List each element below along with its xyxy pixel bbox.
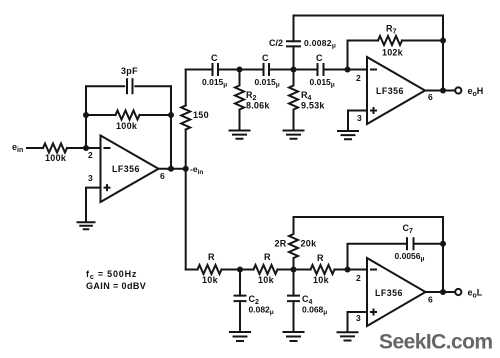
svg-text:R: R [208, 252, 215, 262]
op-amp U2 LF356 [356, 57, 433, 124]
node R4 junction [291, 67, 297, 73]
resistor 150 [181, 106, 209, 130]
svg-text:LF356: LF356 [376, 86, 404, 96]
svg-text:R: R [264, 252, 271, 262]
svg-text:C/2: C/2 [269, 38, 283, 48]
annotation GAIN = 0dBV [86, 281, 146, 291]
svg-text:150: 150 [193, 110, 209, 120]
wire 100k feedback line right [140, 114, 172, 116]
svg-text:2: 2 [356, 73, 361, 83]
resistor Rc 10k [311, 253, 335, 285]
svg-text:R: R [317, 253, 324, 263]
capacitor Cf 3pF [121, 66, 138, 93]
wire 100k feedback line left [86, 114, 116, 116]
svg-text:LF356: LF356 [112, 164, 140, 174]
svg-text:C: C [262, 53, 269, 63]
wire input node to U2 pin2 [348, 69, 368, 71]
terminal e_oL [455, 288, 483, 300]
wire node C4 to Rc [294, 269, 311, 271]
wire C to node R2 [219, 69, 240, 71]
svg-text:C: C [211, 53, 218, 63]
svg-text:2: 2 [88, 150, 93, 160]
node label -e_in [190, 164, 203, 176]
svg-text:6: 6 [160, 171, 165, 181]
svg-text:6: 6 [428, 92, 433, 102]
resistor R2 8.06k [235, 70, 270, 131]
svg-text:102k: 102k [382, 48, 404, 58]
capacitor C4 0.068u [288, 270, 327, 332]
node feedback left junction [83, 112, 89, 118]
capacitor C 0.015u (second) [255, 53, 280, 89]
node U2 inverting input [345, 67, 351, 73]
svg-text:10k: 10k [313, 275, 330, 285]
wire input to R_in [27, 147, 43, 149]
input source label e_in [12, 142, 23, 154]
svg-text:0.0082μ: 0.0082μ [304, 38, 336, 50]
node feedback right junction [168, 112, 174, 118]
wire node C2 to Rb [240, 269, 254, 271]
wire top line to output [294, 15, 444, 17]
wire C2 to node R4 [270, 69, 294, 71]
wire C7 branch vertical [348, 244, 407, 270]
svg-text:3: 3 [88, 173, 93, 183]
svg-text:3: 3 [356, 313, 361, 323]
wire output vertical lower [442, 217, 444, 292]
wire Rb to node C4 [278, 269, 294, 271]
resistor Rf 100k [116, 111, 140, 132]
op-amp U1 LF356 [88, 136, 165, 203]
wire R7 to output vertical [402, 40, 443, 42]
wire upper chain start [186, 69, 212, 71]
node R7 output junction [440, 38, 446, 44]
svg-text:8.06k: 8.06k [246, 101, 270, 111]
svg-text:GAIN = 0dBV: GAIN = 0dBV [86, 281, 146, 291]
wire node A up to feedback loop [85, 86, 87, 148]
wire U1 pin3 to ground [86, 188, 101, 222]
svg-text:100k: 100k [116, 121, 138, 131]
wire lower chain start [186, 269, 198, 271]
wire top feedback line (left half) [86, 85, 124, 87]
wire C3 to node U2 input [325, 69, 348, 71]
capacitor C 0.015u (first) [202, 53, 227, 89]
wire U1 output [159, 168, 186, 170]
ground C4 [284, 332, 304, 341]
svg-text:SeekIC.com: SeekIC.com [379, 331, 493, 354]
wire U2 pin3 to ground [348, 111, 367, 131]
wire input node to U3 pin2 [348, 269, 368, 271]
wire right feedback vertical [170, 86, 172, 168]
ground U3 [338, 332, 358, 340]
capacitor C7 0.0056u [395, 223, 425, 263]
wire U3 output [426, 291, 456, 293]
wire U3 pin3 to ground [348, 312, 368, 332]
node U3 inverting input [345, 267, 351, 273]
resistor Ra 10k [198, 252, 222, 285]
svg-text:6: 6 [428, 295, 433, 305]
wire output vertical upper [442, 16, 444, 91]
node U3 output junction [440, 289, 446, 295]
ground R2 [230, 131, 250, 139]
node U1 output / feedback tap [168, 166, 174, 172]
wire U2 output [425, 90, 455, 92]
node -e_in junction [183, 166, 189, 172]
terminal e_oH [455, 86, 483, 98]
resistor Rb 10k [254, 252, 278, 285]
op-amp U3 LF356 [356, 258, 433, 326]
wire Rc to node U3 input [335, 269, 348, 271]
wire R7 branch vertical [348, 41, 379, 70]
node U2 output junction [440, 88, 446, 94]
wire Ra to node C2 [222, 269, 241, 271]
node A (inverting input of U1) [83, 145, 89, 151]
svg-text:LF356: LF356 [375, 288, 403, 298]
svg-text:20k: 20k [301, 239, 318, 249]
svg-text:2: 2 [356, 273, 361, 283]
resistor R_in 100k [43, 144, 67, 164]
resistor R4 9.53k [289, 70, 325, 131]
node R2 junction [237, 67, 243, 73]
wire top feedback line (right half) [135, 85, 171, 87]
ground U1 [78, 222, 95, 229]
ground U2 [338, 131, 358, 139]
svg-text:3pF: 3pF [121, 66, 138, 76]
ground C2 [230, 332, 250, 341]
node C2 junction [237, 267, 243, 273]
capacitor C 0.015u (third) [310, 53, 335, 89]
wire 2R feedback line to output [294, 216, 444, 218]
svg-text:9.53k: 9.53k [301, 101, 325, 111]
capacitor C/2 0.0082u [269, 16, 336, 70]
watermark SeekIC.com [379, 331, 493, 354]
wire C7 to output vertical [415, 243, 444, 245]
node C4 junction [291, 267, 297, 273]
resistor 2R 20k [275, 217, 318, 270]
node C7 output junction [440, 241, 446, 247]
svg-text:100k: 100k [45, 153, 67, 163]
wire node R4 to C3 [294, 69, 317, 71]
svg-text:10k: 10k [202, 275, 219, 285]
annotation fc = 500 Hz [86, 269, 137, 281]
ground R4 [284, 131, 304, 139]
svg-text:C: C [316, 53, 323, 63]
resistor R7 102k [378, 24, 404, 58]
svg-text:2R: 2R [275, 239, 287, 249]
wire node R2 to C2 [240, 69, 263, 71]
wire R_in to inverting input node [67, 147, 101, 149]
svg-text:0.0056μ: 0.0056μ [395, 251, 425, 263]
wire trunk vertical upper (to 150 resistor) [185, 70, 187, 106]
wire trunk vertical lower [185, 130, 187, 270]
svg-text:10k: 10k [258, 275, 275, 285]
capacitor C2 0.082u [235, 270, 274, 332]
svg-text:3: 3 [357, 113, 362, 123]
